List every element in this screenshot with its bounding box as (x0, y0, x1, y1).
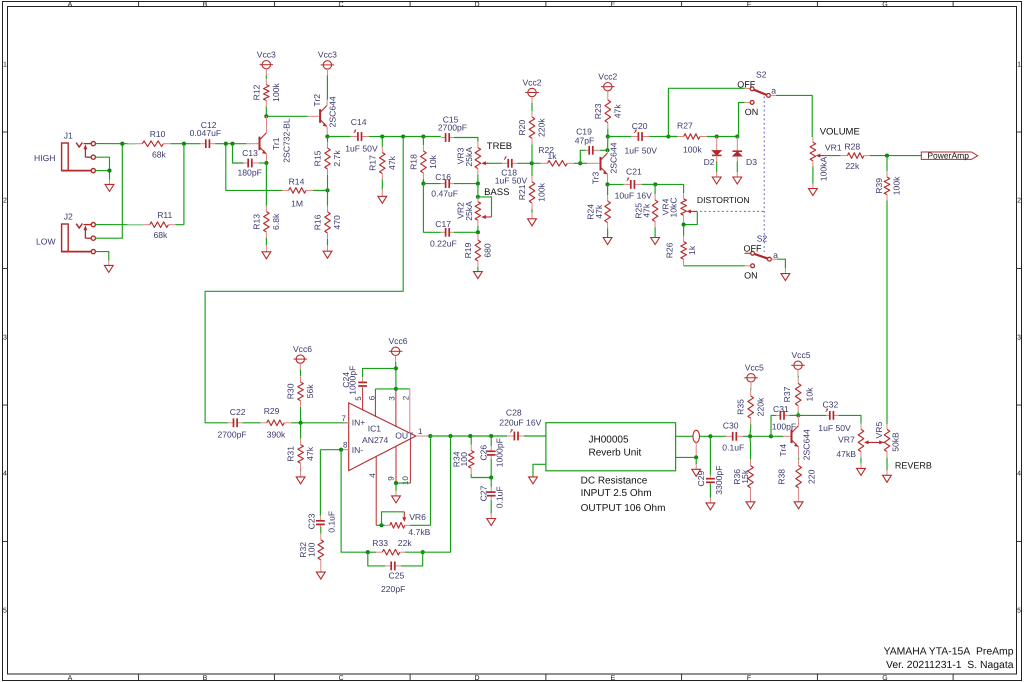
svg-text:100: 100 (307, 542, 317, 557)
wire S2b common stub (771, 258, 777, 260)
title block text (884, 646, 1014, 671)
svg-text:R26: R26 (664, 242, 674, 258)
svg-text:BASS: BASS (484, 187, 509, 198)
capacitor C20 (608, 121, 657, 156)
svg-text:R14: R14 (289, 176, 305, 186)
svg-text:HIGH: HIGH (34, 153, 55, 163)
resistor R24 (585, 184, 610, 237)
svg-text:0.47uF: 0.47uF (431, 189, 458, 199)
wire (790, 414, 799, 416)
svg-text:R29: R29 (264, 406, 280, 416)
svg-text:C30: C30 (723, 421, 739, 431)
wire Tr4 base pin (783, 435, 790, 437)
svg-text:2: 2 (3, 198, 7, 205)
wire Tr3 collector lead (607, 150, 609, 153)
svg-text:220k: 220k (537, 118, 547, 137)
junction VR4 bottom R26 (682, 223, 686, 227)
svg-text:8: 8 (343, 440, 348, 449)
svg-text:15k: 15k (740, 469, 750, 484)
junction VR2 bottom R19 (476, 230, 480, 234)
junction R10-C12 node (182, 142, 186, 146)
resistor R15 (312, 140, 342, 190)
ground (105, 180, 114, 192)
svg-text:0.1uF: 0.1uF (722, 443, 744, 453)
svg-text:Tr4: Tr4 (778, 444, 788, 457)
capacitor C28 (499, 408, 541, 441)
junction R20 R21 node (530, 161, 534, 165)
svg-text:R18: R18 (408, 154, 418, 170)
capacitor C14 (327, 117, 381, 154)
wire C25 left (368, 552, 385, 566)
svg-text:R28: R28 (844, 141, 860, 151)
resistor R10 (135, 129, 170, 159)
ground (712, 162, 721, 185)
wire reverb out (676, 435, 693, 437)
svg-text:C31: C31 (773, 404, 789, 414)
power Vcc3 (257, 50, 276, 76)
wire (95, 224, 142, 226)
resistor R23 (593, 97, 623, 137)
wire to C30 (700, 435, 727, 437)
junction VR3 bottom (476, 182, 480, 186)
wire (531, 163, 533, 176)
svg-text:47k: 47k (305, 446, 315, 461)
svg-text:1uF 50V: 1uF 50V (495, 175, 528, 185)
svg-text:R37: R37 (782, 386, 792, 402)
cable shield symbol (693, 430, 700, 457)
transistor Tr4 2SC644 (778, 426, 812, 461)
svg-text:Tr1: Tr1 (271, 137, 281, 150)
wire VR4 wiper tie (684, 211, 698, 224)
svg-text:9: 9 (387, 476, 396, 481)
wire S2a common to VR1 (776, 95, 812, 137)
ground (781, 268, 790, 280)
potentiometer VR7 (836, 424, 863, 459)
svg-text:220uF 16V: 220uF 16V (499, 417, 541, 427)
svg-text:A: A (68, 1, 73, 8)
svg-text:F: F (747, 675, 751, 682)
svg-text:220pF: 220pF (381, 584, 405, 594)
svg-text:C28: C28 (506, 408, 522, 418)
svg-text:100: 100 (459, 452, 469, 467)
connector J2 input jack LOW (36, 212, 95, 254)
svg-text:C14: C14 (351, 117, 367, 127)
wire R34 bottom to C27 (471, 477, 491, 479)
power Vcc2 (598, 72, 617, 98)
wire C13 left (233, 144, 244, 163)
svg-text:A: A (68, 675, 73, 682)
svg-text:a: a (773, 250, 778, 260)
svg-text:100kA: 100kA (819, 157, 829, 182)
junction D2 node (715, 134, 719, 138)
wire (423, 183, 440, 185)
resistor R31 (286, 439, 316, 471)
wire C23 top (319, 450, 321, 514)
ground (104, 261, 113, 273)
junction R39 top (885, 154, 889, 158)
capacitor C16 (431, 172, 458, 198)
svg-text:B: B (203, 1, 208, 8)
resistor R27 (668, 121, 707, 155)
junction pin3 branch (394, 387, 398, 391)
wire R15 top (326, 137, 328, 141)
svg-text:0.1uF: 0.1uF (495, 486, 505, 508)
wire reverb in gnd (533, 464, 546, 476)
svg-text:a: a (771, 86, 776, 96)
svg-text:C20: C20 (632, 121, 648, 131)
wire (226, 144, 282, 191)
svg-text:2700pF: 2700pF (438, 123, 467, 133)
diode D3 (733, 137, 758, 168)
wire S2a common stub (770, 94, 776, 96)
svg-text:5: 5 (354, 396, 363, 401)
capacitor C32 (818, 399, 851, 433)
junction IC1 out (428, 434, 432, 438)
wire S2a OFF stub (745, 87, 751, 89)
wire (454, 138, 478, 142)
junction Tr4 base node (769, 434, 773, 438)
junction Tr4 collector node (796, 413, 800, 417)
svg-text:4: 4 (1017, 471, 1021, 478)
capacitor C15 (438, 115, 467, 142)
resistor R19 (463, 232, 493, 271)
svg-text:R38: R38 (776, 469, 786, 485)
svg-text:INPUT 2.5 Ohm: INPUT 2.5 Ohm (581, 488, 652, 499)
resistor R26 (664, 225, 697, 266)
transistor Tr3 2SC644 (590, 142, 618, 184)
ground (794, 495, 803, 509)
svg-text:REVERB: REVERB (895, 460, 932, 470)
wire (300, 407, 302, 423)
svg-text:2SC644: 2SC644 (608, 142, 618, 173)
svg-text:R27: R27 (677, 121, 693, 131)
svg-text:Tr2: Tr2 (312, 94, 322, 107)
junction C12 out A (224, 142, 228, 146)
wire pin4 to VR6 (376, 524, 385, 526)
svg-text:10uF 16V: 10uF 16V (615, 191, 653, 201)
svg-text:C23: C23 (306, 513, 316, 529)
op-amp IC1 AN274 (341, 388, 430, 526)
svg-text:3: 3 (1017, 335, 1021, 342)
switch S2 (lower) (744, 234, 779, 281)
potentiometer VR4 distortion (660, 193, 697, 225)
svg-text:47k: 47k (612, 104, 622, 119)
svg-text:100k: 100k (683, 145, 702, 155)
wire (403, 136, 423, 138)
ground (296, 471, 305, 484)
svg-text:YAMAHA YTA-15A PreAmp: YAMAHA YTA-15A PreAmp (884, 646, 1014, 657)
wire (382, 136, 403, 138)
wire (95, 252, 108, 261)
svg-text:OFF: OFF (744, 244, 762, 254)
ground (323, 245, 332, 258)
wire (95, 171, 109, 180)
svg-text:AN274: AN274 (362, 435, 388, 445)
svg-text:25kA: 25kA (464, 147, 474, 167)
resistor R12 (251, 75, 281, 110)
wire Tr1 base pin (247, 143, 259, 145)
ground (651, 238, 660, 245)
svg-text:OUTPUT 106 Ohm: OUTPUT 106 Ohm (581, 503, 666, 514)
junction C29 top (708, 434, 712, 438)
svg-text:2700pF: 2700pF (218, 430, 247, 440)
junction C14 out R17 (380, 134, 384, 138)
svg-text:100k: 100k (891, 176, 901, 195)
wire (477, 175, 479, 184)
junction R33 left (366, 550, 370, 554)
wire (423, 184, 440, 233)
wire Tr3 emitter lead (607, 175, 609, 185)
svg-text:4: 4 (3, 471, 7, 478)
ground (692, 457, 701, 476)
svg-text:R16: R16 (312, 214, 322, 230)
svg-text:DISTORTION: DISTORTION (697, 195, 750, 205)
svg-text:2.7k: 2.7k (332, 150, 342, 167)
reverb unit JH00005 box (546, 423, 676, 514)
svg-text:100k: 100k (537, 182, 547, 201)
svg-text:22k: 22k (398, 538, 413, 548)
svg-text:C: C (338, 1, 343, 8)
wire (265, 110, 267, 116)
capacitor C25 (381, 562, 405, 594)
svg-text:Vcc5: Vcc5 (745, 363, 764, 373)
svg-text:220k: 220k (755, 397, 765, 416)
resistor R36 (732, 442, 753, 495)
capacitor C21 (608, 166, 653, 200)
wire (871, 155, 921, 157)
svg-text:ON: ON (744, 271, 758, 281)
svg-text:C17: C17 (435, 219, 451, 229)
junction R34 top (468, 434, 472, 438)
capacitor C13 (238, 148, 262, 177)
svg-text:DC Resistance: DC Resistance (581, 475, 648, 486)
power Vcc6 (293, 344, 312, 370)
svg-text:C26: C26 (478, 445, 488, 461)
power Vcc5 (791, 350, 811, 376)
wire C25 right (401, 552, 423, 566)
capacitor C31 (772, 404, 796, 432)
capacitor C18 (495, 156, 528, 185)
wire (175, 144, 184, 225)
ground (883, 458, 892, 483)
svg-text:10k: 10k (804, 387, 814, 402)
wire R35 bottom (749, 430, 751, 436)
svg-text:390k: 390k (267, 430, 286, 440)
svg-text:1k: 1k (548, 151, 558, 161)
svg-text:VR5: VR5 (874, 422, 884, 439)
wire to Tr3 base (580, 162, 587, 164)
svg-text:Vcc6: Vcc6 (388, 336, 407, 346)
svg-text:R15: R15 (312, 150, 322, 166)
svg-text:R33: R33 (372, 538, 388, 548)
wire VR6 right to out (410, 436, 431, 525)
svg-text:68k: 68k (152, 150, 167, 160)
wire R39 to VR5 (886, 201, 888, 425)
svg-text:Vcc3: Vcc3 (257, 50, 276, 60)
junction R18 top (421, 134, 425, 138)
resistor R29 (242, 406, 291, 440)
wire (423, 136, 440, 138)
wire Tr4 emitter lead (798, 447, 800, 458)
svg-text:R17: R17 (367, 155, 377, 171)
svg-text:R21: R21 (517, 184, 527, 200)
wire VR7-VR5 wiper tie (864, 440, 884, 444)
wire to pin2 (396, 388, 410, 390)
svg-text:Reverb Unit: Reverb Unit (589, 448, 642, 459)
wire (313, 189, 328, 191)
svg-text:IN-: IN- (352, 445, 364, 455)
ground (529, 477, 538, 484)
wire C26 to C27 (490, 459, 492, 472)
svg-text:D3: D3 (746, 157, 757, 167)
wire (259, 162, 266, 164)
wire pin9 pin10 (396, 482, 410, 484)
resistor R35 (736, 388, 766, 430)
wire (215, 143, 247, 145)
svg-text:2: 2 (402, 395, 411, 400)
svg-text:R13: R13 (251, 214, 261, 230)
wire Tr4 collector lead (797, 415, 799, 425)
wire R26 to S2b ON (684, 265, 745, 267)
potentiometer VR3 treble (456, 142, 488, 175)
wire (518, 162, 541, 164)
svg-text:1: 1 (3, 62, 7, 69)
svg-text:Vcc6: Vcc6 (293, 344, 312, 354)
svg-text:1M: 1M (291, 199, 303, 209)
wire reverb out low (676, 456, 697, 458)
capacitor C17 (430, 219, 457, 249)
wire (265, 163, 267, 206)
svg-text:VR7: VR7 (838, 434, 855, 444)
ground (528, 213, 537, 226)
wire (707, 136, 737, 138)
svg-text:D: D (474, 1, 479, 8)
wire (300, 423, 302, 439)
junction D3 node (735, 134, 739, 138)
svg-text:Vcc2: Vcc2 (522, 77, 541, 87)
wire R36 top (749, 436, 751, 442)
wire (839, 415, 862, 423)
wire (326, 75, 328, 100)
resistor R21 (517, 176, 547, 213)
svg-text:47k: 47k (642, 203, 652, 218)
wire S2b common to gnd (777, 259, 785, 268)
svg-text:10k: 10k (428, 154, 438, 169)
svg-text:Ver. 20211231-1 S. Nagata: Ver. 20211231-1 S. Nagata (886, 660, 1014, 671)
svg-text:E: E (611, 675, 616, 682)
wire (395, 362, 397, 369)
ground (392, 483, 401, 503)
svg-text:Vcc5: Vcc5 (791, 350, 810, 360)
wire VR2 wiper tie (478, 197, 492, 217)
resistor R16 (312, 190, 342, 245)
wire C29 drop (709, 436, 711, 474)
wire (477, 226, 479, 232)
junction pin9 (394, 481, 398, 485)
svg-text:R31: R31 (286, 446, 296, 462)
svg-text:47k: 47k (387, 155, 397, 170)
wire R33 right up to out (405, 436, 451, 552)
potentiometer VR5 reverb (874, 422, 900, 458)
wire Vcc6 to pin3 branch (395, 368, 397, 389)
svg-text:25kA: 25kA (464, 201, 474, 221)
resistor R25 (633, 184, 657, 237)
wire VR3 wiper to C18 (487, 162, 502, 164)
junction Tr2 emitter C14 (325, 134, 329, 138)
svg-text:0.22uF: 0.22uF (430, 239, 457, 249)
capacitor C29 (696, 466, 724, 495)
svg-text:R23: R23 (593, 103, 603, 119)
junction shield node (694, 455, 698, 459)
wire Tr2 emitter lead (326, 127, 328, 137)
svg-text:1uF 50V: 1uF 50V (345, 144, 378, 154)
svg-text:22k: 22k (845, 161, 860, 171)
junction Vcc6 pin3 (394, 366, 398, 370)
wire S2b ON stub (745, 265, 751, 267)
svg-text:470: 470 (332, 215, 342, 230)
svg-text:C: C (338, 675, 343, 682)
capacitor C22 (218, 407, 247, 440)
hierarchical label PowerAmp (921, 151, 977, 161)
wire (170, 143, 200, 145)
svg-text:1uF 50V: 1uF 50V (625, 146, 658, 156)
mechanical link dashed line (700, 97, 764, 253)
ground (857, 458, 866, 476)
capacitor C30 (722, 421, 744, 453)
svg-text:1uF 50V: 1uF 50V (818, 423, 851, 433)
junction C20 out (666, 134, 670, 138)
junction R18 bottom C16 (421, 182, 425, 186)
junction C26 top (489, 434, 493, 438)
wire (743, 435, 771, 437)
resistor R14 (282, 176, 313, 208)
junction VR2 top tie (476, 195, 480, 199)
ground (487, 500, 496, 526)
capacitor C24 (341, 366, 367, 395)
svg-text:VR6: VR6 (409, 512, 426, 522)
svg-text:Tr3: Tr3 (590, 171, 600, 184)
svg-text:S2: S2 (756, 70, 767, 80)
junction R14-R15-R16 (325, 188, 329, 192)
wire to pin6 (375, 388, 396, 390)
svg-text:C25: C25 (389, 571, 405, 581)
svg-text:IC1: IC1 (368, 424, 382, 434)
svg-text:G: G (882, 675, 887, 682)
wire (524, 435, 546, 437)
svg-text:100pF: 100pF (772, 422, 796, 432)
svg-text:3300pF: 3300pF (714, 466, 724, 495)
wire Tr3 base pin (587, 162, 599, 164)
junction J1 sleeve (107, 169, 111, 173)
svg-text:R11: R11 (157, 210, 172, 220)
svg-text:1k: 1k (687, 245, 697, 255)
resistor R39 (874, 156, 901, 201)
svg-text:J1: J1 (64, 131, 73, 141)
ground (316, 566, 325, 580)
capacitor C23 (306, 511, 336, 533)
svg-text:47kB: 47kB (836, 449, 856, 459)
svg-text:R20: R20 (517, 120, 527, 136)
resistor R28 (840, 141, 871, 171)
svg-text:R19: R19 (463, 242, 473, 258)
wire Tr3 collector to node (607, 137, 609, 151)
wire IN- node (320, 449, 341, 451)
ground (746, 495, 755, 509)
ground (733, 162, 742, 185)
junction C21 out R25 (653, 182, 657, 186)
switch S2 (upper) (737, 70, 776, 117)
resistor R32 (298, 527, 324, 566)
